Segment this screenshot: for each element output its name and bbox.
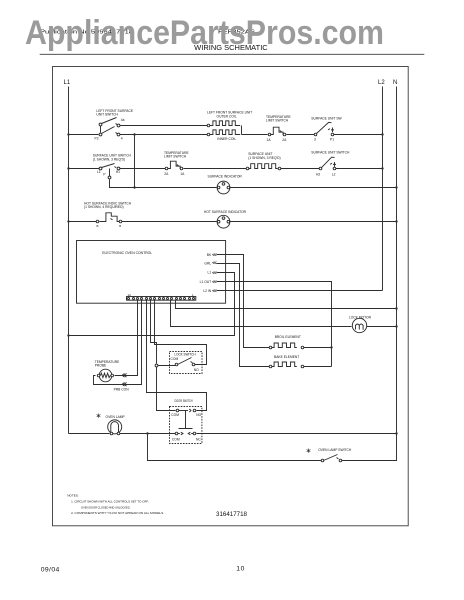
oven lamp switch [307, 448, 352, 462]
wire pin7 to lock switch NO [155, 301, 207, 365]
svg-text:L2 IN: L2 IN [203, 289, 211, 293]
svg-text:L2: L2 [378, 80, 385, 86]
svg-text:316417718: 316417718 [216, 511, 248, 518]
wire row1 outer branch 4a to outer coil [120, 125, 208, 127]
wire L1 vertical bus [68, 87, 70, 434]
svg-text:LOCK SWITCH: LOCK SWITCH [174, 352, 196, 356]
svg-text:BAKE ELEMENT: BAKE ELEMENT [274, 355, 299, 359]
svg-text:SURFACE INDICATOR: SURFACE INDICATOR [208, 175, 243, 179]
connector probe left chevrons [122, 383, 126, 387]
svg-text:B: B [97, 224, 99, 228]
svg-text:H1: H1 [116, 170, 120, 174]
junction row1 L2 [381, 133, 383, 135]
svg-text:WIRING SCHEMATIC: WIRING SCHEMATIC [194, 45, 268, 52]
svg-text:NO: NO [196, 413, 201, 417]
svg-text:B: B [119, 224, 121, 228]
svg-text:LIMIT SWITCH: LIMIT SWITCH [266, 119, 289, 123]
svg-text:BK: BK [207, 253, 212, 257]
svg-text:PROBE: PROBE [95, 364, 107, 368]
junction pin12 N [395, 307, 397, 309]
schematic frame [53, 67, 409, 526]
svg-text:(1 SHOWN, 3 REQ'D): (1 SHOWN, 3 REQ'D) [93, 157, 125, 161]
wire L2 vertical bus [382, 87, 384, 291]
switch surface unit sw (3/P1) [311, 116, 342, 141]
switch hot surface indic switch [84, 201, 132, 228]
svg-text:OVEN DOOR CLOSED AND UNLOCKED.: OVEN DOOR CLOSED AND UNLOCKED. [81, 505, 130, 509]
switch left front surface unit switch (DPST P2/4a/4) [95, 109, 134, 140]
wire row1 coils to temp limit switch [242, 134, 268, 136]
wire lamp to door switch COM [120, 433, 176, 435]
svg-text:NC: NC [196, 437, 201, 441]
wire pin4 to probe left loop [94, 301, 142, 385]
wire door switch NC to N [197, 433, 397, 435]
indicator hot surface indicator [122, 210, 397, 228]
svg-text:1. CIRCUIT SHOWN WITH ALL CO: 1. CIRCUIT SHOWN WITH ALL CONTROLS SET T… [71, 500, 149, 504]
svg-text:(1 SHOWN, 4 REQUIRED): (1 SHOWN, 4 REQUIRED) [84, 205, 124, 209]
coil left front surface unit inner coil [207, 130, 240, 141]
switch temperature limit switch row2 [164, 151, 189, 176]
element surface unit (1 shown, 3 req'd) [246, 152, 281, 170]
element bake element [269, 355, 331, 368]
wire L2 IN from L2 bus [217, 290, 383, 292]
wire light switch to N [342, 434, 397, 461]
junction lock motor N [395, 325, 397, 327]
svg-text:OVEN LAMP SWITCH: OVEN LAMP SWITCH [318, 448, 352, 452]
svg-text:1A: 1A [128, 293, 132, 297]
svg-text:P2: P2 [95, 136, 99, 140]
wire GRL to bake element [217, 264, 270, 367]
wire lamp split down to light switch row [148, 434, 322, 461]
svg-text:ELECTRONIC OVEN CONTROL: ELECTRONIC OVEN CONTROL [102, 251, 152, 255]
svg-text:4a: 4a [121, 118, 125, 122]
svg-text:HOT SURFACE INDICATOR: HOT SURFACE INDICATOR [204, 210, 247, 214]
wire BK to broil element [217, 255, 270, 348]
junction row2 L2 [381, 167, 383, 169]
indicator surface indicator [135, 175, 397, 194]
element broil element [269, 335, 331, 349]
wire outer coil joins main [241, 126, 243, 135]
wire row2 to L2 [336, 168, 383, 170]
wire pin3 to probe right [115, 301, 138, 376]
svg-text:P1: P1 [330, 138, 334, 142]
wire lamp row L1 to lamp [69, 433, 110, 435]
svg-text:1A: 1A [267, 138, 272, 142]
svg-text:2A: 2A [282, 138, 287, 142]
wire row3 L1 to hot surface switch [69, 221, 97, 223]
junction indicator row [133, 186, 135, 188]
svg-text:H2: H2 [316, 173, 320, 177]
EOC terminal strip [127, 293, 196, 300]
svg-text:INNER COIL: INNER COIL [217, 137, 236, 141]
wire row1 main 4 to inner coil [120, 134, 208, 136]
connector probe right chevrons [122, 374, 126, 378]
junction indicator N [395, 186, 397, 188]
junction hot surface indicator N [395, 220, 397, 222]
svg-text:GRL: GRL [204, 262, 211, 266]
wire row1 temp switch to surface unit sw [287, 134, 315, 136]
header rule [40, 53, 425, 55]
wire N vertical bus [396, 87, 398, 434]
junction L1 row2 [67, 167, 69, 169]
EOC pin label BK [207, 253, 217, 257]
svg-text:L1: L1 [97, 170, 101, 174]
EOC pin label GRL [204, 262, 216, 266]
junction lamp row split [146, 432, 148, 434]
svg-text:PRB CON: PRB CON [114, 387, 130, 391]
junction L1 row1 [67, 133, 69, 135]
junction broil right [330, 346, 332, 348]
svg-text:SURFACE UNIT SWITCH: SURFACE UNIT SWITCH [311, 151, 350, 155]
switch temperature limit switch row1 [266, 115, 291, 142]
svg-text:4: 4 [121, 136, 123, 140]
svg-text:BROIL ELEMENT: BROIL ELEMENT [275, 335, 301, 339]
wire pin11 to lock motor [171, 301, 352, 327]
svg-text:2A: 2A [164, 172, 169, 176]
svg-text:09/04: 09/04 [41, 567, 60, 574]
svg-text:COM: COM [171, 413, 179, 417]
svg-text:10: 10 [236, 566, 245, 573]
svg-text:LIMIT SWITCH: LIMIT SWITCH [164, 155, 187, 159]
lock motor [349, 315, 372, 332]
svg-text:L1: L1 [64, 80, 71, 86]
EOC pin label L1 OUT [200, 280, 217, 284]
svg-text:OVEN LAMP: OVEN LAMP [106, 415, 126, 419]
wire L1 OUT to elements common [217, 282, 332, 367]
EOC pin label L1 [208, 271, 217, 275]
junction row1 to indicator drop [133, 133, 135, 135]
wire row2 temp switch to element [184, 168, 247, 170]
svg-text:2. COMPONENTS WITH * IS DO: 2. COMPONENTS WITH * IS DO NOT APPEAR ON… [71, 511, 164, 515]
door switch [170, 399, 202, 444]
svg-text:L2: L2 [332, 173, 336, 177]
svg-text:L1 OUT: L1 OUT [200, 280, 212, 284]
svg-text:DOOR SWITCH: DOOR SWITCH [175, 399, 194, 403]
notes [67, 494, 164, 516]
wire row2 H1 to temp limit switch [120, 168, 166, 170]
svg-text:COM: COM [171, 357, 179, 361]
svg-text:3: 3 [314, 138, 316, 142]
junction lamp row N [395, 432, 397, 434]
wire drop row1 to indicator row [134, 135, 136, 188]
svg-text:COM: COM [172, 437, 180, 441]
svg-text:OUTER COIL: OUTER COIL [217, 115, 237, 119]
svg-text:N: N [393, 80, 397, 86]
wire lock COM feed down to door COM [157, 367, 176, 411]
junction L1 row3 [67, 220, 69, 222]
wire P stub to indicator row [110, 180, 135, 188]
wire row2 element to switch [281, 168, 320, 170]
svg-text:SURFACE UNIT SW: SURFACE UNIT SW [311, 116, 342, 120]
wire row1 main L1 to P2 [69, 134, 99, 136]
EOC pin label L2 IN [203, 289, 216, 293]
oven lamp [97, 414, 126, 435]
connector lock COM tap [155, 364, 158, 367]
wire pin5 to door switch NO [147, 301, 207, 411]
wire row2 L1 to switch [69, 168, 100, 170]
svg-text:1A: 1A [180, 172, 185, 176]
svg-text:P: P [103, 173, 106, 177]
svg-text:(1 SHOWN, 3 REQ'D): (1 SHOWN, 3 REQ'D) [248, 156, 280, 160]
temperature probe [95, 360, 130, 391]
lock switch [158, 352, 203, 374]
wire pin12 to N [176, 301, 397, 309]
coil left front surface unit outer coil [207, 110, 252, 126]
junction L1 bus feed [67, 334, 69, 336]
svg-text:UNIT SWITCH: UNIT SWITCH [96, 113, 118, 117]
wire L1 supply from L1 bus [69, 273, 235, 336]
wire pin6 jog to lock/door COM feed [151, 301, 157, 364]
electronic oven control box [77, 241, 226, 304]
wire lock motor to N [367, 326, 397, 328]
switch surface unit switch (H2/L2) [311, 151, 350, 177]
svg-text:NOTES:: NOTES: [67, 494, 79, 498]
wire row1 to L2 [334, 134, 383, 136]
switch surface unit switch (L1/P/H1) [93, 154, 132, 179]
svg-text:L1: L1 [208, 271, 212, 275]
svg-text:NO: NO [194, 368, 199, 372]
